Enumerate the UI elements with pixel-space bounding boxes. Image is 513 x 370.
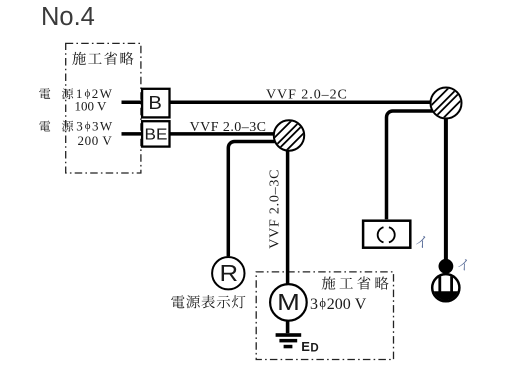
svg-text:B: B: [148, 92, 162, 113]
svg-text:VVF 2.0–3C: VVF 2.0–3C: [267, 169, 282, 249]
junction box 2 (VVF用ジョイントボックス, hatched circle): [431, 88, 462, 119]
wire stub from 3φ3W source to breaker BE: [122, 132, 142, 136]
dashed omitted-work boundary box (bottom-right, 施工省略 motor): [256, 272, 393, 360]
label 電 源 (3φ3W source): [39, 121, 73, 132]
svg-text:3ϕ3W: 3ϕ3W: [76, 119, 113, 134]
ground bar 2: [279, 339, 297, 343]
wire stub from 1φ2W source to breaker B: [122, 100, 142, 104]
ground bar 1: [276, 333, 302, 337]
switch イ annotation at ceiling rose: [416, 236, 425, 248]
svg-text:BE: BE: [145, 126, 168, 143]
pendant lampholder (circle with bars, bottom filled): [432, 274, 459, 301]
label 施工省略 (motor box): [322, 276, 389, 289]
wire from right junction box to ceiling rose (with bend): [387, 111, 441, 219]
dashed omitted-work boundary box (top-left, 施工省略): [66, 43, 141, 173]
wire from breaker B to junction box (VVF 2.0-2C): [170, 100, 442, 104]
svg-text:R: R: [220, 260, 239, 286]
ground electrode ED stem: [286, 319, 290, 333]
ground bar 3: [284, 345, 293, 349]
label 電 源 (1φ2W source): [39, 88, 73, 99]
イ annotation at pendant: [458, 259, 467, 270]
svg-text:100 V: 100 V: [75, 99, 108, 114]
ceiling rose box 角形引掛シーリング ( ): [363, 221, 410, 248]
pendant cord ball (filled circle): [439, 259, 454, 274]
wire from junction box to pilot lamp R (with bend): [228, 142, 282, 257]
svg-text:No.4: No.4: [41, 3, 95, 31]
breaker BE (漏電遮断器): [142, 121, 169, 146]
label 電源表示灯 (pilot lamp): [171, 295, 245, 308]
breaker B (配線用遮断器): [142, 89, 169, 118]
junction box 1 (VVF用ジョイントボックス, hatched circle): [274, 120, 304, 150]
wire from junction box down to motor M: [286, 145, 290, 285]
motor M (3φ200V 電動機): [270, 284, 307, 321]
svg-text:M: M: [277, 289, 300, 315]
svg-text:VVF 2.0–2C: VVF 2.0–2C: [266, 87, 348, 102]
pilot lamp R (電源表示灯ランプレセプタクル): [212, 257, 244, 289]
label 施工省略 (top box): [72, 52, 133, 65]
wire from breaker BE to junction box (VVF 2.0-3C): [170, 132, 286, 136]
svg-text:200 V: 200 V: [78, 133, 113, 148]
wire from right junction box down to pendant: [444, 115, 448, 261]
